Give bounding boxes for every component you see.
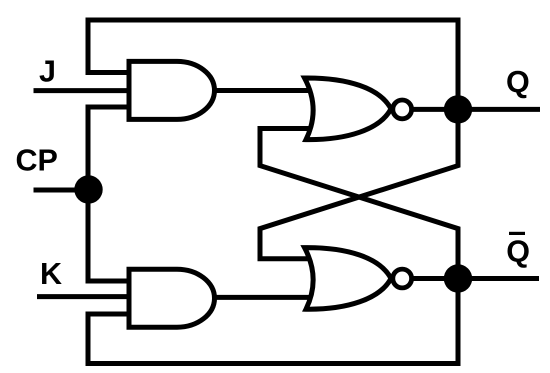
svg-text:CP: CP (16, 144, 58, 178)
svg-text:Q: Q (506, 65, 530, 99)
svg-text:Q: Q (506, 234, 530, 268)
svg-text:K: K (40, 257, 62, 291)
svg-text:J: J (39, 55, 56, 89)
